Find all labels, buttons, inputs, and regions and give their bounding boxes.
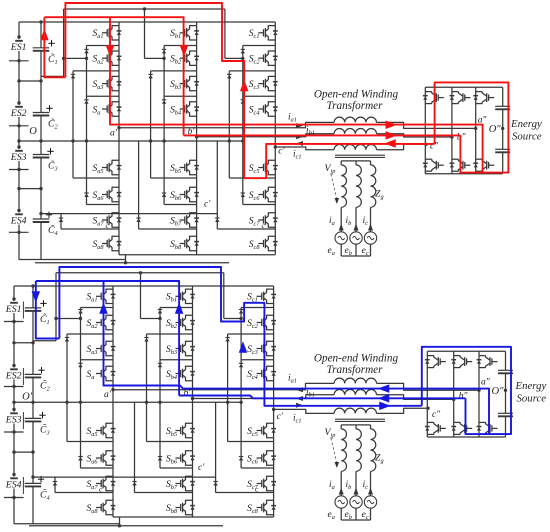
wire ES converter leg b	[453, 351, 455, 437]
source e_a	[335, 496, 347, 508]
label i_b1	[306, 388, 315, 399]
node c label Sa7 (lower)	[99, 485, 103, 494]
node a&#8242;	[104, 388, 115, 400]
node c label Sa7 (upper)	[106, 221, 110, 230]
wire ES converter leg b	[451, 87, 453, 174]
diode Db1 (upper)	[162, 49, 166, 53]
switch Sc8 (lower)	[247, 500, 276, 515]
transistor ES leg b upper	[450, 92, 471, 104]
switch Sb4 (lower)	[166, 366, 195, 381]
switch Sc4 (lower)	[247, 366, 276, 381]
wire lower left DC rail	[13, 286, 15, 524]
switch Sb7 (upper)	[170, 213, 199, 228]
wire upper left DC rail	[18, 22, 20, 260]
switch Sb1 (upper)	[170, 26, 199, 41]
label i_c	[363, 480, 369, 491]
switch Sb4 (upper)	[170, 102, 199, 117]
current arrow i_c1	[296, 403, 303, 408]
svg-text:O': O'	[22, 392, 33, 403]
diode Db3 (upper)	[162, 100, 166, 104]
switch Sa6 (lower)	[87, 451, 116, 466]
diode Dc3 (lower)	[239, 363, 243, 367]
switch Sa7 (upper)	[93, 213, 122, 228]
svg-text:Transformer: Transformer	[327, 100, 384, 112]
wire leg c clamp net upper (upper)	[225, 46, 275, 205]
transistor ES leg c upper	[477, 356, 498, 368]
diode Da5 (upper)	[59, 218, 63, 222]
wire blue path b line	[179, 396, 465, 399]
switch Sc2 (lower)	[247, 315, 276, 330]
wire red path b line	[184, 134, 461, 136]
wire O neutral rail (upper)	[19, 139, 243, 142]
current arrow red ia1 right	[386, 121, 398, 130]
node O''	[492, 386, 508, 397]
switch Sc6 (upper)	[249, 187, 278, 202]
diode Dc2 (lower)	[225, 338, 229, 342]
wire phase b line	[193, 395, 454, 400]
capacitor C1 (lower)	[25, 300, 50, 326]
wire feeder drop leg c (upper)	[224, 9, 226, 58]
diode Da1 (upper)	[84, 49, 88, 53]
label Energy Source	[515, 380, 547, 405]
node a''	[474, 115, 487, 130]
diode Da3 (upper)	[84, 100, 88, 104]
switch Sa7 (lower)	[87, 476, 116, 491]
label i_a1	[288, 113, 297, 124]
label Open-end Winding Transformer	[314, 353, 399, 377]
switch Sc8 (upper)	[249, 236, 278, 251]
current arrow i_a1	[296, 123, 303, 128]
source e_c	[364, 232, 376, 244]
label Z_g	[375, 189, 384, 201]
current arrow red Sa2 down	[106, 45, 115, 57]
switch Sc5 (upper)	[249, 160, 278, 175]
wire lower capacitor stem rail	[32, 286, 34, 524]
dashed phasor arrow	[331, 438, 339, 468]
winding c1 (primary)	[334, 408, 376, 413]
capacitor C1 (upper)	[33, 40, 58, 66]
switch Sa4 (upper)	[93, 102, 122, 117]
node c' mid label (lower)	[198, 463, 205, 473]
wire phase a line	[113, 383, 479, 390]
label Energy Source	[510, 118, 542, 143]
wire feeder drop leg b (upper)	[144, 9, 146, 58]
capacitor C3 (lower)	[25, 412, 50, 436]
switch Sb8 (lower)	[166, 500, 195, 515]
wire leg c clamp net lower (lower)	[216, 402, 274, 492]
transformer core	[335, 419, 385, 421]
svg-text:Transformer: Transformer	[327, 364, 384, 376]
label i_c1	[293, 150, 302, 161]
switch Sb2 (lower)	[166, 315, 195, 330]
current arrow i_b1	[296, 134, 303, 139]
diode Dc4 (upper)	[241, 193, 245, 197]
svg-text:Source: Source	[512, 131, 542, 143]
label e_c	[362, 246, 369, 257]
svg-text:O″: O″	[492, 386, 505, 397]
wire ES converter top rail	[427, 350, 505, 352]
wire blue path ES box	[422, 347, 511, 434]
node c''	[424, 141, 439, 151]
wire leg a clamp net lower (lower)	[55, 442, 113, 493]
wire leg b clamp net upper (upper)	[145, 46, 197, 205]
wire leg b clamp net upper (lower)	[141, 308, 193, 469]
label i_c	[363, 216, 369, 227]
wire phase c line	[274, 408, 428, 413]
switch Sc7 (upper)	[249, 213, 278, 228]
switch Sb3 (lower)	[166, 341, 195, 356]
wire ES converter leg c	[475, 87, 477, 174]
wire leg a clamp net upper (upper)	[62, 46, 119, 205]
wire upper top DC bus	[19, 20, 275, 23]
wire red path ES box	[435, 82, 509, 172]
diode Dc1 (lower)	[239, 310, 243, 314]
wire source return bus	[341, 508, 370, 520]
wire link ES1/ES2 to C1/C2 junction (upper)	[19, 79, 43, 82]
svg-text:b″: b″	[457, 132, 467, 142]
wire lower switch bottom bus	[113, 516, 274, 518]
winding secondary b	[356, 429, 361, 471]
wire leg b clamp net lower (lower)	[135, 402, 193, 492]
node c label Sc7 (lower)	[255, 485, 259, 494]
diode Da3 (lower)	[78, 363, 82, 367]
svg-text:ES2: ES2	[10, 108, 27, 119]
switch Sc1 (upper)	[249, 26, 278, 41]
current arrow blue ia1 left	[378, 384, 390, 393]
wire leg a' bus (lower)	[112, 286, 114, 517]
current arrow i_c1	[296, 141, 303, 146]
switch Sb8 (upper)	[170, 236, 199, 251]
wire secondary top bar	[341, 161, 370, 165]
battery ES1 (upper)	[9, 41, 29, 61]
label i_a	[329, 480, 335, 491]
svg-text:Energy: Energy	[515, 380, 547, 392]
switch Sb7 (lower)	[166, 476, 195, 491]
wire phase a line	[119, 122, 476, 128]
switch Sa2 (lower)	[87, 315, 116, 330]
diode Dc5 (upper)	[215, 218, 219, 222]
svg-text:O″: O″	[489, 124, 502, 135]
node O''	[489, 124, 505, 135]
svg-text:ES4: ES4	[10, 216, 27, 227]
transistor ES leg c lower	[473, 159, 494, 171]
battery ES2 (upper)	[9, 107, 29, 126]
current arrow i_b1	[296, 396, 303, 401]
switch Sb3 (upper)	[170, 76, 199, 91]
wire ES DC link	[502, 87, 504, 174]
diode Da5 (lower)	[53, 482, 57, 486]
node b&#8242;	[188, 127, 199, 139]
label V_jp	[325, 427, 336, 439]
winding a1 (primary)	[334, 117, 376, 122]
source e_a	[335, 232, 347, 244]
wire ES converter leg a	[424, 87, 426, 174]
winding secondary c	[371, 429, 376, 471]
wire leg c clamp net upper (lower)	[224, 308, 274, 469]
battery ES2 (lower)	[4, 368, 24, 387]
svg-text:c′: c′	[278, 147, 285, 157]
capacitor ES link upper	[498, 370, 513, 373]
node c&#8242;	[274, 145, 286, 156]
capacitor C3 (upper)	[33, 148, 58, 172]
wire red path top line A	[65, 3, 434, 178]
current arrow red ic1 left	[384, 139, 396, 148]
switch Sa8 (lower)	[87, 500, 116, 515]
switch Sa3 (lower)	[87, 341, 116, 356]
switch Sc7 (lower)	[247, 476, 276, 491]
label i_a1	[288, 374, 297, 385]
switch Sc3 (lower)	[247, 341, 276, 356]
label e_a	[328, 510, 335, 521]
svg-text:Source: Source	[517, 393, 547, 405]
label Open-end Winding Transformer	[314, 89, 399, 113]
diode Dc2 (upper)	[227, 74, 231, 78]
switch Sc5 (lower)	[247, 423, 276, 438]
node c''	[426, 407, 441, 421]
label i_c1	[293, 414, 302, 425]
switch Sa1 (lower)	[87, 289, 116, 304]
wire upper switch bottom bus	[119, 254, 275, 256]
transistor ES leg a lower	[423, 159, 444, 171]
svg-text:ES4: ES4	[5, 480, 22, 491]
wire lower left bottom rail	[14, 523, 120, 525]
switch Sa8 (upper)	[93, 236, 122, 251]
battery ES3 (upper)	[9, 151, 29, 170]
switch Sa5 (lower)	[87, 423, 116, 438]
capacitor C4 (lower)	[25, 476, 50, 501]
switch Sa1 (upper)	[93, 26, 122, 41]
diode Db4 (lower)	[158, 457, 162, 461]
transistor ES leg b lower	[451, 422, 472, 434]
capacitor C2 (lower)	[25, 367, 51, 392]
wire phase c line	[275, 144, 426, 150]
svg-text:ES3: ES3	[10, 152, 27, 163]
wire secondary to sources	[339, 207, 373, 232]
diode Db4 (upper)	[162, 193, 166, 197]
junction dots lower left rail	[12, 297, 15, 499]
winding secondary c	[371, 165, 376, 207]
label e_b	[345, 246, 352, 257]
svg-text:b′: b′	[184, 389, 192, 399]
winding a1 (primary)	[334, 378, 376, 383]
label V_jp	[325, 163, 336, 175]
transistor ES leg b lower	[450, 159, 471, 171]
svg-text:c′: c′	[204, 200, 211, 210]
diode Db5 (lower)	[132, 482, 136, 486]
capacitor C4 (upper)	[33, 212, 58, 237]
switch Sa3 (upper)	[93, 76, 122, 91]
svg-text:Open-end Winding: Open-end Winding	[314, 89, 399, 101]
label i_b	[346, 216, 352, 227]
switch Sa6 (upper)	[93, 187, 122, 202]
current arrow red Sb2 down	[180, 45, 189, 57]
wire C1 bottom link (lower)	[33, 273, 56, 341]
wire blue path top line B	[36, 281, 179, 396]
transistor ES leg a upper	[423, 92, 444, 104]
wire blue path top line A	[59, 267, 421, 406]
battery ES3 (lower)	[4, 412, 24, 432]
svg-text:b″: b″	[459, 391, 469, 401]
winding b1 (primary)	[334, 129, 376, 134]
wire C1 bottom link (upper)	[41, 9, 64, 76]
label Z_g	[375, 453, 384, 465]
label e_a	[328, 246, 335, 257]
node b''	[450, 132, 466, 142]
node O label (upper)	[29, 126, 37, 137]
wire upper half-tie line	[35, 255, 229, 265]
wire leg c' bus (lower)	[273, 286, 275, 517]
svg-text:Open-end Winding: Open-end Winding	[314, 353, 399, 365]
switch Sb5 (lower)	[166, 423, 195, 438]
transistor ES leg b upper	[451, 356, 472, 368]
transistor ES leg c lower	[477, 422, 498, 434]
wire feeder drop leg c (lower)	[223, 273, 225, 319]
current arrow blue Sa1 up	[99, 302, 108, 314]
diode Da1 (lower)	[78, 310, 82, 314]
winding secondary a	[341, 429, 346, 471]
wire leg a clamp net lower (upper)	[61, 178, 119, 229]
svg-text:ES3: ES3	[5, 415, 22, 426]
node a&#8242;	[110, 126, 121, 138]
label e_c	[362, 510, 369, 521]
wire clamp feeder line (lower)	[31, 475, 215, 478]
wire link ES1/ES2 to C1/C2 junction (lower)	[14, 341, 35, 344]
wire link ES3/ES4 to C3/C4 junction (upper)	[19, 187, 43, 190]
diode Db2 (upper)	[148, 74, 152, 78]
current arrow red C1 up	[40, 29, 49, 41]
wire ES converter bottom rail	[427, 436, 505, 438]
label i_b	[346, 480, 352, 491]
dashed phasor arrow	[331, 174, 339, 204]
diode Db3 (lower)	[158, 363, 162, 367]
diode Db1 (lower)	[158, 310, 162, 314]
svg-text:a′: a′	[110, 128, 118, 138]
wire phase b line	[197, 134, 452, 137]
transformer core	[335, 155, 385, 157]
wire leg a bus (upper)	[118, 22, 120, 255]
wire red path leg a drop	[110, 17, 483, 172]
wire blue path leg a drop	[104, 281, 490, 434]
diode Db5 (upper)	[136, 218, 140, 222]
wire ES converter leg c	[478, 351, 480, 437]
transistor ES leg c upper	[473, 92, 494, 104]
node c label Sc7 (upper)	[262, 221, 266, 230]
svg-text:ES2: ES2	[5, 371, 22, 382]
wire leg b bus (upper)	[196, 22, 198, 255]
winding c1 (primary)	[334, 145, 376, 150]
current arrow blue ib1 left	[378, 394, 390, 403]
switch Sc2 (upper)	[249, 51, 278, 66]
node b&#8242;	[184, 389, 195, 401]
wire ES converter bottom rail	[425, 173, 502, 175]
switch Sb2 (upper)	[170, 51, 199, 66]
svg-text:c′: c′	[198, 463, 205, 473]
winding secondary a	[341, 165, 346, 207]
wire leg a clamp net upper (lower)	[54, 308, 113, 469]
wire secondary top bar	[341, 425, 370, 429]
wire clamp feeder line (upper)	[39, 212, 217, 215]
current arrow red ib1 right	[386, 131, 398, 140]
node a''	[477, 377, 490, 392]
svg-text:ES1: ES1	[5, 304, 22, 315]
transistor ES leg a upper	[425, 356, 446, 368]
capacitor ES link lower	[498, 413, 513, 416]
switch Sb5 (upper)	[170, 160, 199, 175]
capacitor C2 (upper)	[33, 105, 59, 130]
wire secondary to sources	[339, 471, 373, 496]
switch Sc4 (upper)	[249, 102, 278, 117]
winding b1 (primary)	[334, 390, 376, 395]
current arrow blue Sb1 up	[175, 302, 184, 314]
node c&#8242;	[272, 408, 284, 422]
svg-text:ES1: ES1	[10, 42, 27, 53]
battery ES4 (lower)	[4, 477, 24, 498]
svg-text:c″: c″	[432, 410, 441, 420]
wire upper capacitor stem rail	[40, 22, 42, 260]
svg-text:c′: c′	[277, 412, 284, 422]
node c' mid label (upper)	[204, 200, 211, 210]
wire lower half-tie line	[29, 517, 223, 528]
wire source return bus	[341, 244, 370, 256]
junction dots upper left rail	[17, 35, 20, 234]
wire lower top DC bus	[14, 284, 274, 287]
svg-text:a″: a″	[481, 377, 491, 387]
diode Da2 (upper)	[71, 74, 75, 78]
svg-text:Energy: Energy	[510, 118, 542, 130]
switch Sb1 (lower)	[166, 289, 195, 304]
battery ES4 (upper)	[9, 214, 29, 232]
wire red path top line B	[44, 17, 183, 135]
label i_b1	[306, 126, 315, 137]
wire upper inner feeder bus	[64, 7, 225, 10]
label i_a	[329, 216, 335, 227]
winding secondary b	[356, 165, 361, 207]
battery ES1 (lower)	[4, 302, 24, 322]
switch Sb6 (lower)	[166, 451, 195, 466]
wire leg c bus (upper)	[274, 22, 276, 255]
switch Sc1 (lower)	[247, 289, 276, 304]
diode Da4 (upper)	[84, 193, 88, 197]
diode Dc5 (lower)	[213, 482, 217, 486]
diode Dc1 (upper)	[241, 49, 245, 53]
wire blue path C1 loop	[36, 281, 60, 339]
node b''	[452, 391, 468, 401]
diode Da4 (lower)	[78, 457, 82, 461]
wire leg b' bus (lower)	[192, 286, 194, 517]
diode Da2 (lower)	[65, 338, 69, 342]
switch Sc6 (lower)	[247, 451, 276, 466]
wire feeder drop leg b (lower)	[140, 273, 142, 319]
switch Sb6 (upper)	[170, 187, 199, 202]
current arrow red Sc3 up	[240, 80, 249, 92]
switch Sa4 (lower)	[87, 366, 116, 381]
current arrow blue ic1 right	[379, 402, 391, 411]
current arrow blue C1 down	[32, 291, 41, 303]
diode Dc4 (lower)	[239, 457, 243, 461]
source e_b	[350, 496, 362, 508]
transistor ES leg a lower	[425, 422, 446, 434]
wire red path C1 loop	[44, 17, 65, 77]
node O' label (lower)	[22, 392, 33, 403]
svg-text:a′: a′	[104, 390, 112, 400]
switch Sa5 (upper)	[93, 160, 122, 175]
switch Sa2 (upper)	[93, 51, 122, 66]
diode Db2 (lower)	[144, 338, 148, 342]
current arrow blue Sc3 up	[239, 341, 248, 353]
source e_b	[350, 232, 362, 244]
wire ES converter leg a	[426, 351, 428, 437]
diode Dc3 (upper)	[241, 100, 245, 104]
